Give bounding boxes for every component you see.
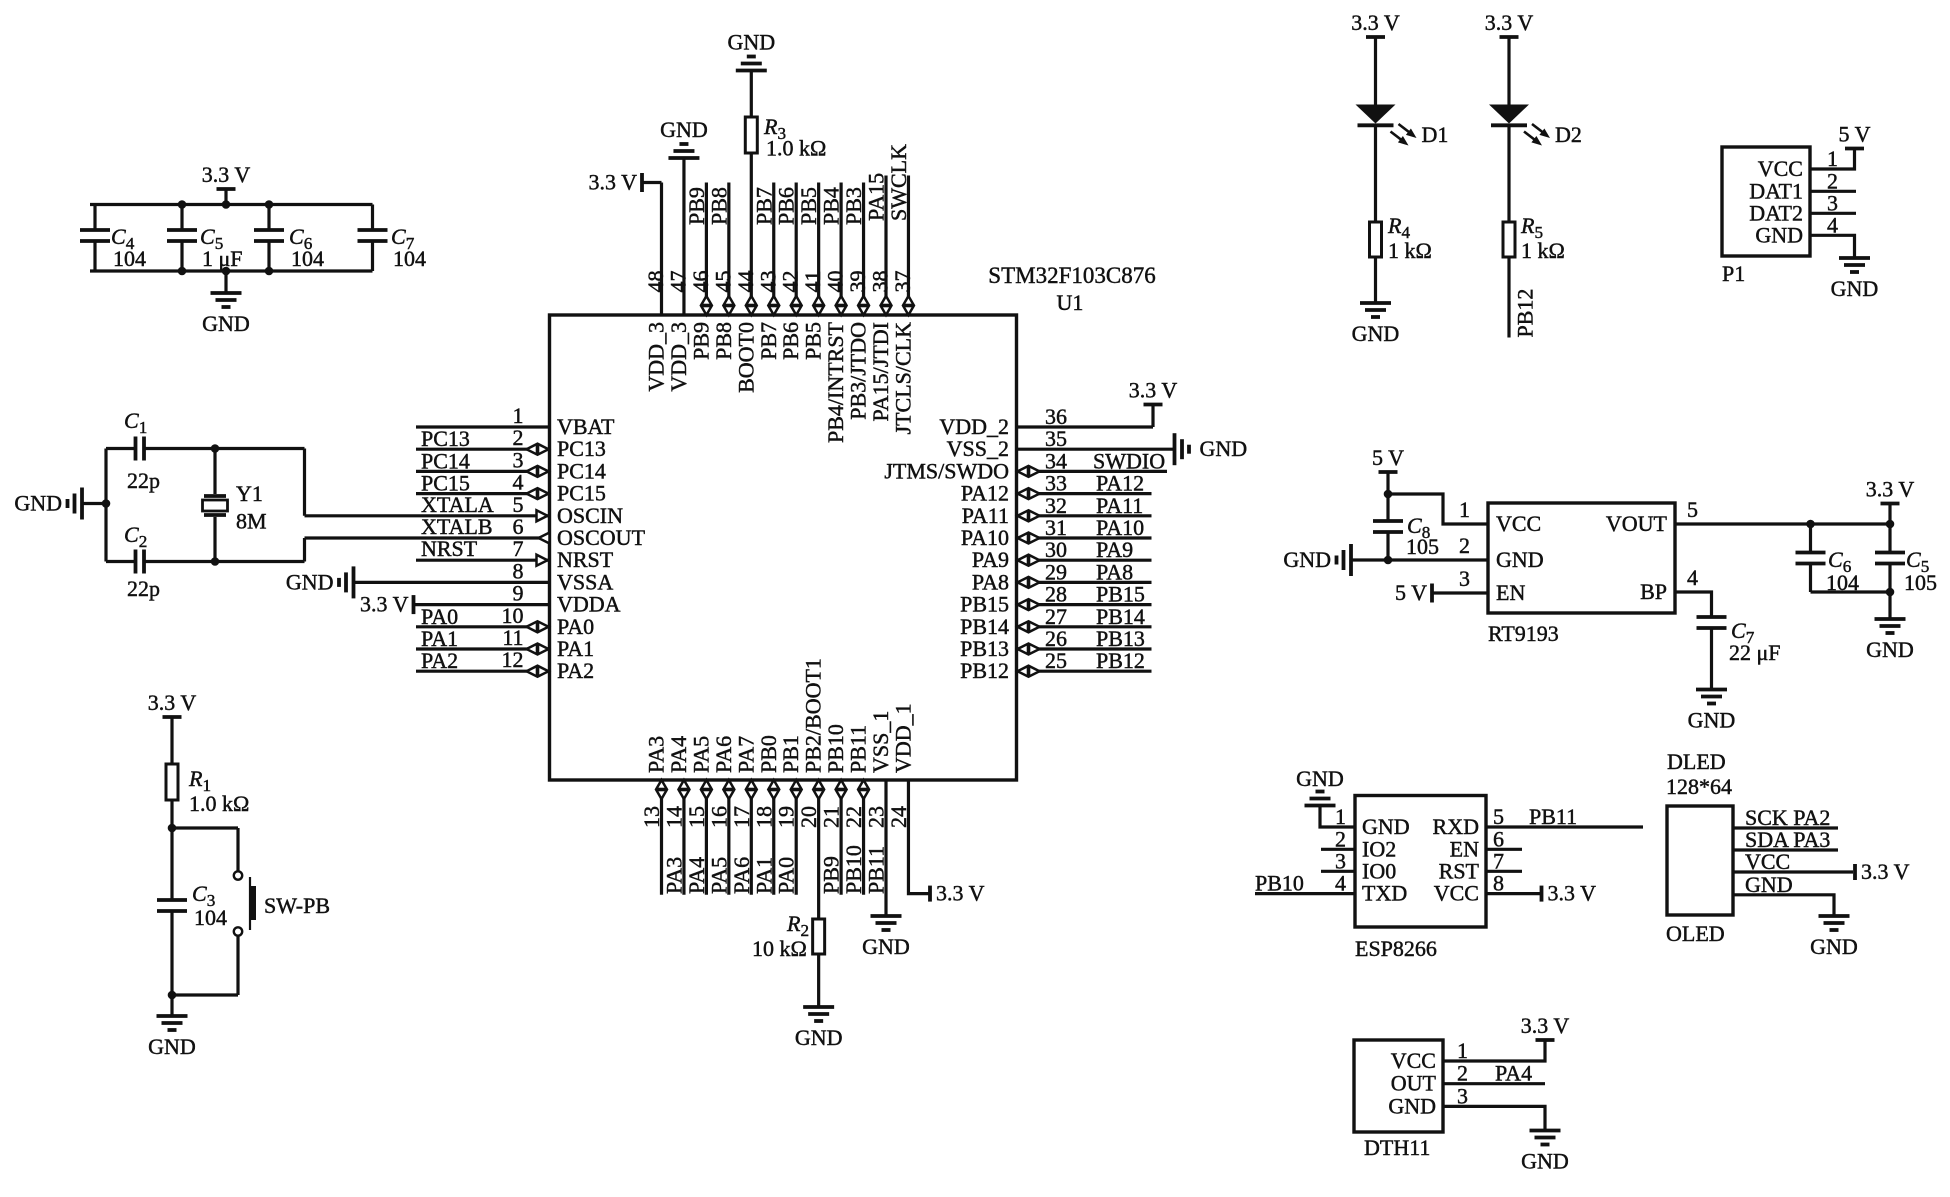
capacitor C7 [371,205,374,231]
power 5V at P1 [1845,147,1864,151]
svg-text:GND: GND [1745,872,1793,897]
svg-text:PB9: PB9 [684,187,709,225]
svg-text:1 kΩ: 1 kΩ [1521,238,1565,263]
capacitor bank rail 3.3V top [90,203,373,206]
svg-text:Y1: Y1 [236,481,263,506]
svg-text:GND: GND [1831,276,1879,301]
U1 pin 46 PB9 wire and labels [705,183,708,316]
svg-text:BP: BP [1640,579,1667,604]
svg-text:PA3: PA3 [644,736,669,773]
svg-text:SWCLK: SWCLK [886,144,911,221]
crystal loop wires [104,449,107,562]
U1 pin 3 PC14 wire and labels [416,470,550,473]
svg-text:VCC: VCC [1758,156,1803,181]
wire VOUT to output node [1675,522,1890,525]
wire ESP8266 pin7 stub [1486,870,1522,873]
wire ESP8266 pin3 stub [1321,870,1355,873]
svg-text:VCC: VCC [1496,511,1541,536]
svg-text:VOUT: VOUT [1606,511,1668,536]
svg-text:PB10: PB10 [841,845,866,894]
svg-text:VDD_1: VDD_1 [890,703,915,773]
svg-text:38: 38 [868,271,893,293]
wire P1 pin2 [1810,190,1856,193]
svg-text:PA1: PA1 [751,857,776,894]
svg-text:SW-PB: SW-PB [264,893,330,918]
svg-text:GND: GND [1352,321,1400,346]
svg-text:5: 5 [1687,497,1698,522]
svg-text:3: 3 [1459,566,1470,591]
capacitor C8 [1373,519,1403,523]
IC RT9193 body [1488,503,1675,613]
resistor R3 at BOOT0 [745,117,757,153]
svg-text:4: 4 [1827,212,1838,237]
wire ground to RT9193 GND [1351,558,1488,561]
svg-text:2: 2 [1457,1061,1468,1086]
svg-text:22p: 22p [127,576,160,601]
svg-text:3.3 V: 3.3 V [202,162,251,187]
ground below capacitor bank [224,271,227,293]
ground at U1 pin 47 [668,156,699,160]
svg-text:104: 104 [194,905,227,930]
U1 pin 40 PB4/INTRST wire and labels [839,183,842,316]
svg-text:OLED: OLED [1666,921,1725,946]
LED D2 [1500,35,1519,39]
svg-text:OUT: OUT [1391,1071,1437,1096]
svg-text:16: 16 [706,806,731,828]
svg-text:PB10: PB10 [823,724,848,773]
U1 pin 45 PB8 wire and labels [727,183,730,316]
svg-text:39: 39 [845,271,870,293]
wire R1 to C3 [170,800,173,900]
U1 pin 12 PA2 wire and labels [416,670,550,673]
svg-text:PA2: PA2 [421,648,458,673]
svg-text:PB4/INTRST: PB4/INTRST [823,321,848,443]
svg-text:4: 4 [1687,565,1698,590]
svg-text:PA0: PA0 [774,857,799,894]
svg-text:46: 46 [688,271,713,293]
power 3.3V at VOUT [1888,504,1891,525]
U1 pin 11 PA1 wire and labels [416,647,550,650]
svg-text:PB7: PB7 [751,187,776,225]
U1 pin 23 VSS_1 wire [884,780,887,916]
wire DTH11 pin1 to 3.3V [1443,1040,1545,1061]
wire switch branch [172,826,238,829]
svg-text:PB11: PB11 [846,725,871,773]
svg-text:12: 12 [502,647,524,672]
svg-text:1: 1 [1335,804,1346,829]
ground at U1 pin 35 [1173,433,1177,465]
svg-text:PB8: PB8 [711,322,736,360]
ground left of crystal [82,502,106,505]
svg-text:22: 22 [841,806,866,828]
svg-text:PB1: PB1 [778,735,803,773]
power 3.3V at U1 pin 24 [928,886,932,902]
svg-text:DTH11: DTH11 [1364,1135,1430,1160]
svg-text:PB12: PB12 [960,658,1009,683]
svg-text:GND: GND [286,569,334,594]
ground left of C8 [1349,544,1353,576]
svg-text:PB2/BOOT1: PB2/BOOT1 [801,658,826,773]
U1 pin 18 PB0 wire [772,780,775,895]
display OLED body [1667,806,1733,915]
svg-text:20: 20 [796,806,821,828]
svg-text:RST: RST [1439,858,1480,883]
ground at U1 pin 8 VSSA [352,566,356,598]
U1 pin 27 PB14 wire and labels [1017,625,1152,628]
wire DTH11 pin2 PA4 [1443,1082,1545,1085]
svg-text:18: 18 [751,806,776,828]
svg-text:PA7: PA7 [733,736,758,773]
ground above R3 [736,69,767,73]
wire ESP8266 pin6 stub [1486,848,1522,851]
resistor R1 [166,764,178,800]
crystal Y1 [213,449,216,495]
svg-text:P1: P1 [1722,261,1745,286]
resistor R4 [1370,222,1382,257]
U1 pin 43 PB7 wire and labels [772,183,775,316]
svg-text:GND: GND [14,491,62,516]
U1 pin 2 PC13 wire and labels [416,448,550,451]
U1 pin 8 VSSA wire and labels [354,581,550,584]
svg-text:GND: GND [202,311,250,336]
wire P1 pin1 to 5V [1810,149,1855,170]
svg-text:22p: 22p [127,468,160,493]
svg-text:PA15: PA15 [864,173,889,221]
svg-text:1 kΩ: 1 kΩ [1388,238,1432,263]
svg-text:PB12: PB12 [1513,289,1538,338]
svg-text:23: 23 [864,806,889,828]
ground below R1 group [170,995,173,1016]
svg-text:48: 48 [643,271,668,293]
svg-text:BOOT0: BOOT0 [733,322,758,393]
svg-text:STM32F103C876: STM32F103C876 [988,263,1155,288]
U1 pin 31 PA10 wire and labels [1017,536,1152,539]
svg-text:RT9193: RT9193 [1488,621,1559,646]
svg-text:PB3: PB3 [841,187,866,225]
svg-text:PB11: PB11 [864,846,889,894]
svg-text:3.3 V: 3.3 V [1866,477,1915,502]
capacitor C5 output [1888,524,1891,553]
U1 pin 44 BOOT0 wire and labels [750,153,753,315]
svg-text:PB0: PB0 [756,735,781,773]
svg-text:PA5: PA5 [706,857,731,894]
U1 pin 15 PA5 wire [705,780,708,895]
wire OLED SCK PA2 [1733,826,1838,829]
svg-text:44: 44 [733,271,758,293]
svg-text:21: 21 [819,806,844,828]
svg-text:3.3 V: 3.3 V [1351,10,1400,35]
U1 pin 38 PA15/JTDI wire and labels [884,176,887,316]
svg-text:PB4: PB4 [819,187,844,225]
U1 pin 26 PB13 wire and labels [1017,647,1152,650]
svg-text:1.0 kΩ: 1.0 kΩ [766,136,826,161]
wire 5V to RT9193 VCC [1388,494,1488,524]
U1 pin 36 VDD_2 wire and labels [1017,425,1154,428]
svg-text:GND: GND [1688,708,1736,733]
svg-text:25: 25 [1045,648,1067,673]
svg-text:VDD_3: VDD_3 [666,322,691,392]
svg-text:24: 24 [886,806,911,828]
svg-text:105: 105 [1406,534,1439,559]
svg-text:GND: GND [1200,436,1248,461]
wire OLED GND [1733,895,1834,916]
svg-text:PA4: PA4 [666,736,691,773]
svg-text:GND: GND [660,117,708,142]
svg-text:PB12: PB12 [1096,648,1145,673]
connector P1 body [1722,147,1810,256]
ground below P1 [1839,256,1870,260]
svg-text:41: 41 [800,271,825,293]
svg-text:GND: GND [1388,1093,1436,1118]
svg-text:3.3 V: 3.3 V [1548,881,1597,906]
svg-text:PB6: PB6 [778,322,803,360]
svg-text:17: 17 [729,806,754,828]
capacitor C6 output [1809,524,1812,553]
ground below R2 [803,1005,834,1009]
svg-text:1: 1 [1459,497,1470,522]
svg-text:14: 14 [661,806,686,828]
svg-text:RXD: RXD [1433,814,1479,839]
U1 pin 19 PB1 wire [795,780,798,895]
svg-text:VDD_3: VDD_3 [644,322,669,392]
capacitor C5 [180,205,183,231]
wire ESP8266 pin5 PB11 [1486,825,1643,828]
node dots crystal [211,444,220,453]
ground below OLED [1819,914,1850,918]
svg-text:PB6: PB6 [774,187,799,225]
svg-text:PB8: PB8 [706,187,731,225]
resistor R2 [813,919,825,954]
svg-text:5 V: 5 V [1395,580,1427,605]
svg-text:42: 42 [778,271,803,293]
U1 pin 7 NRST wire and labels [416,559,550,562]
svg-text:PA5: PA5 [688,736,713,773]
svg-text:1: 1 [1457,1038,1468,1063]
capacitor C7 bypass [1697,615,1727,619]
wire P1 pin3 [1810,212,1856,215]
U1 pin 9 VDDA wire and labels [414,603,550,606]
U1 pin 32 PA11 wire and labels [1017,514,1152,517]
U1 pin 21 PB10 wire [839,780,842,895]
svg-text:40: 40 [823,271,848,293]
power 5V at RT9193 EN [1430,584,1434,603]
U1 pin 17 PA7 wire [750,780,753,895]
power 3.3V at U1 pin 48 [642,181,662,184]
svg-text:3.3 V: 3.3 V [1485,10,1534,35]
U1 pin 33 PA12 wire and labels [1017,492,1152,495]
U1 pin 1 VBAT wire and labels [416,425,550,428]
node dot 5V/C8 [1384,490,1393,499]
svg-text:VSS_1: VSS_1 [868,711,893,773]
wire ESP8266 pin8 to 3.3V [1486,892,1540,895]
svg-text:4: 4 [1335,871,1346,896]
svg-text:EN: EN [1496,580,1525,605]
svg-text:GND: GND [1755,222,1803,247]
power 5V above C8 [1379,470,1398,474]
svg-text:3.3 V: 3.3 V [1129,378,1178,403]
svg-text:VCC: VCC [1745,849,1790,874]
svg-text:GND: GND [1521,1149,1569,1174]
wire R4 to ground [1374,257,1377,303]
svg-text:3.3 V: 3.3 V [360,592,409,617]
svg-text:PB7: PB7 [756,322,781,360]
svg-text:3: 3 [1335,848,1346,873]
svg-text:VCC: VCC [1391,1048,1436,1073]
svg-text:1: 1 [1827,146,1838,171]
svg-text:105: 105 [1904,570,1937,595]
svg-text:GND: GND [1496,547,1544,572]
U1 pin 34 JTMS/SWDO wire and labels [1017,470,1168,473]
capacitor C2 [134,550,138,574]
svg-text:PB5: PB5 [796,187,821,225]
U1 pin 42 PB6 wire and labels [795,183,798,316]
svg-text:37: 37 [890,271,915,293]
ground at U1 pin 23 [871,914,902,918]
ground below DTH11 [1530,1129,1561,1133]
U1 pin 25 PB12 wire and labels [1017,670,1152,673]
svg-text:3: 3 [1457,1083,1468,1108]
svg-text:PA6: PA6 [729,857,754,894]
svg-text:GND: GND [148,1034,196,1059]
LED D1 [1366,35,1385,39]
svg-text:13: 13 [639,806,664,828]
U1 pin 29 PA8 wire and labels [1017,581,1152,584]
svg-text:JTCLS/CLK: JTCLS/CLK [890,322,915,435]
wire C3 to ground node [170,911,173,995]
svg-text:GND: GND [1296,766,1344,791]
svg-text:8M: 8M [236,509,267,534]
U1 pin 10 PA0 wire and labels [416,625,550,628]
capacitor C6 [267,205,270,231]
U1 pin 5 OSCIN wire and labels [305,514,550,517]
U1 pin 47 VDD_3 wire and labels [682,158,685,315]
power 3.3V at U1 pin 9 VDDA [412,595,416,614]
svg-text:GND: GND [1362,814,1410,839]
capacitor C1 [134,437,138,461]
wire ESP8266 pin4 PB10 [1255,892,1355,895]
svg-text:5 V: 5 V [1372,445,1404,470]
power 3.3V above R1 [163,715,182,719]
svg-text:TXD: TXD [1362,881,1407,906]
svg-text:104: 104 [393,246,426,271]
U1 pin 41 PB5 wire and labels [817,183,820,316]
svg-text:GND: GND [1866,637,1914,662]
wire BP to C7 [1675,592,1712,617]
svg-text:3.3 V: 3.3 V [1861,859,1910,884]
svg-text:5 V: 5 V [1839,122,1871,147]
svg-text:PA2: PA2 [557,658,594,683]
svg-text:D2: D2 [1555,122,1582,147]
svg-text:GND: GND [795,1025,843,1050]
svg-text:3.3 V: 3.3 V [589,170,638,195]
switch SW-PB [234,871,242,879]
svg-text:3.3 V: 3.3 V [936,881,985,906]
svg-text:104: 104 [113,246,146,271]
svg-text:U1: U1 [1057,290,1084,315]
svg-text:DLED: DLED [1667,749,1726,774]
U1 pin 13 PA3 wire [660,780,663,895]
svg-text:PA15/JTDI: PA15/JTDI [868,322,893,421]
U1 pin 24 VDD_1 wire [908,780,928,894]
ground below C7 [1696,688,1727,692]
U1 pin 37 JTCLS/CLK wire and labels [907,176,910,316]
svg-text:ESP8266: ESP8266 [1355,936,1437,961]
U1 pin 35 VSS_2 wire and labels [1017,448,1175,451]
ground below R4 [1360,301,1391,305]
svg-text:PA6: PA6 [711,736,736,773]
svg-text:3.3 V: 3.3 V [1521,1013,1570,1038]
U1 pin 20 PB2/BOOT1 wire [817,780,820,919]
svg-text:45: 45 [710,271,735,293]
svg-text:1.0 kΩ: 1.0 kΩ [189,791,249,816]
svg-text:VCC: VCC [1434,881,1479,906]
svg-text:1 μF: 1 μF [202,246,243,271]
svg-text:10 kΩ: 10 kΩ [752,936,807,961]
svg-text:PB10: PB10 [1255,871,1304,896]
svg-text:2: 2 [1459,533,1470,558]
svg-text:PA4: PA4 [1495,1061,1532,1086]
svg-text:15: 15 [684,806,709,828]
node dots on capacitor bank rails [178,200,187,209]
svg-text:PB3/JTDO: PB3/JTDO [846,322,871,420]
svg-text:GND: GND [1283,547,1331,572]
wire OLED SDA PA3 [1733,848,1838,851]
svg-text:19: 19 [774,806,799,828]
svg-text:GND: GND [727,30,775,55]
svg-text:PB9: PB9 [819,856,844,894]
ground below C5 [1888,592,1891,619]
wire P1 pin4 to ground [1810,235,1855,258]
U1 pin 4 PC15 wire and labels [416,492,550,495]
svg-text:3.3 V: 3.3 V [148,690,197,715]
svg-text:NRST: NRST [421,536,478,561]
U1 pin 16 PA6 wire [727,780,730,895]
U1 pin 48 VDD_3 wire and labels [660,183,663,316]
U1 pin 22 PB11 wire [862,780,865,895]
sensor DTH11 body [1354,1040,1443,1132]
svg-text:PB9: PB9 [688,322,713,360]
wire DTH11 pin3 to ground [1443,1106,1545,1130]
U1 pin 14 PA4 wire [682,780,685,895]
U1 pin 28 PB15 wire and labels [1017,603,1152,606]
U1 pin 30 PA9 wire and labels [1017,559,1152,562]
IC ESP8266 body [1355,796,1486,928]
svg-text:IO0: IO0 [1362,858,1396,883]
svg-text:PB5: PB5 [801,322,826,360]
power 3.3V for capacitor bank [224,189,227,205]
IC U1 STM32F103C876 body [550,315,1017,780]
svg-text:D1: D1 [1422,122,1449,147]
capacitor C4 [93,205,96,231]
svg-text:GND: GND [1810,934,1858,959]
resistor R5 [1503,222,1515,257]
svg-text:PA4: PA4 [684,857,709,894]
svg-text:GND: GND [862,934,910,959]
U1 pin 39 PB3/JTDO wire and labels [862,183,865,316]
svg-text:128*64: 128*64 [1666,774,1732,799]
svg-text:104: 104 [291,246,324,271]
svg-text:PB11: PB11 [1529,804,1577,829]
wire OLED VCC to 3.3V [1733,870,1853,873]
wire ESP8266 pin2 stub [1321,848,1355,851]
U1 pin 6 OSCOUT wire and labels [305,536,550,539]
svg-text:8: 8 [1493,871,1504,896]
wire R5 to PB12 [1507,257,1510,338]
wire below C5 C6 [1811,590,1891,593]
svg-text:43: 43 [755,271,780,293]
svg-text:22 μF: 22 μF [1729,640,1781,665]
svg-text:7: 7 [1493,848,1504,873]
